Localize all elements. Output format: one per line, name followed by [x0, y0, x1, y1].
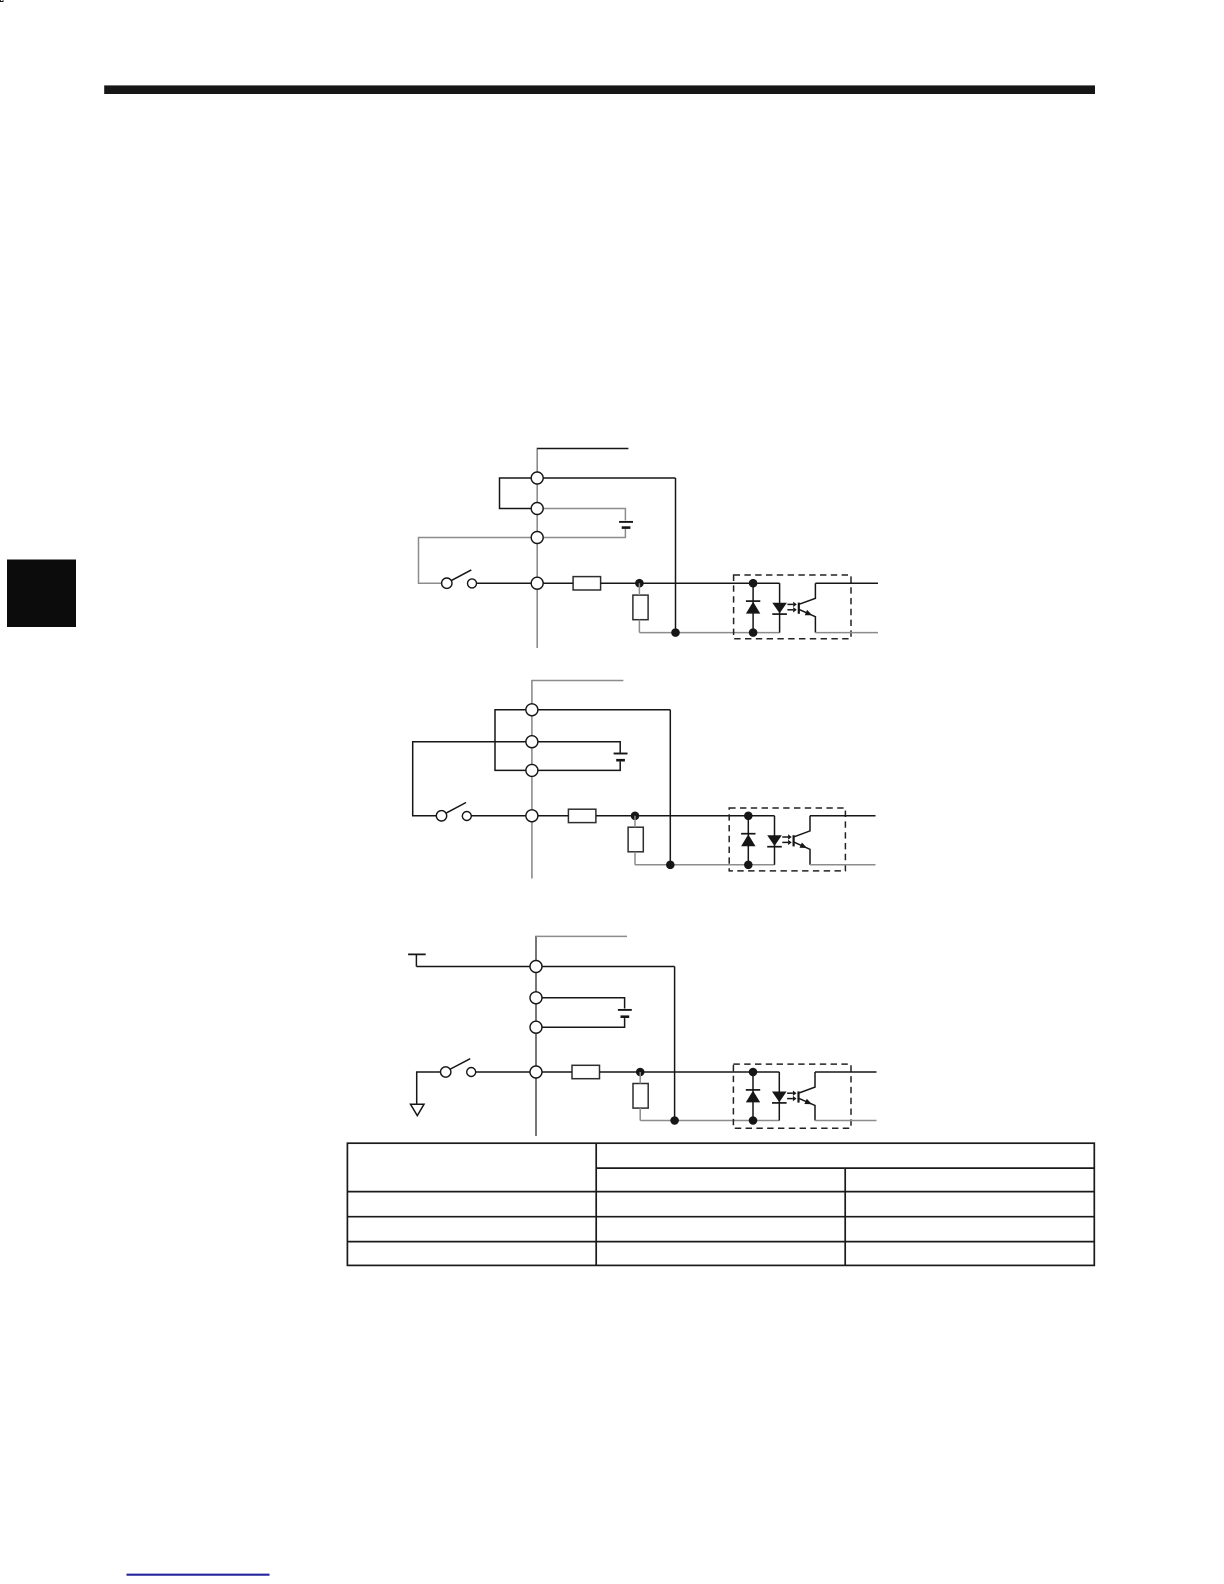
ground symbol — [411, 1104, 425, 1115]
wire: emitter output (bottom) — [810, 864, 876, 866]
wire: pin2 to switch (far left) — [413, 742, 526, 816]
pin 1 (circuit 2) — [526, 704, 538, 716]
wire: switch to pin4 — [472, 815, 526, 817]
junction J4 (diode bottom node) — [744, 861, 753, 870]
wire: pin 4 to R1 — [542, 1071, 572, 1073]
footer rule (blue) — [127, 1574, 270, 1576]
wire: diode D1 branch (vertical) — [747, 816, 749, 865]
wire: J1 down to R2 top — [638, 583, 640, 595]
CN1 pin column (circuit 2) — [531, 680, 533, 879]
wire: pin1 to internal supply, right — [542, 966, 675, 968]
wire: top feed line (circuit 3) — [536, 935, 627, 937]
wire: battery - to pin3 — [542, 1018, 625, 1027]
wire: emitter output (bottom) — [815, 632, 878, 634]
switch SW2 contact circles — [436, 811, 446, 821]
battery B2 (12-24 VDC) — [614, 753, 628, 755]
pin 3 (circuit 2) — [526, 764, 538, 776]
wire: pin 4 to R1 — [538, 815, 569, 817]
pin 4 (circuit 3, input) — [530, 1066, 542, 1078]
phototransistor emitter lead with arrow — [799, 1098, 815, 1120]
resistor R2 (shunt, vertical) — [633, 1084, 648, 1109]
pin 1 (circuit 1) — [531, 472, 543, 484]
table row line 2 — [347, 1216, 1094, 1218]
CN1 pin column (circuit 3) — [535, 936, 537, 1136]
resistor R1 (series, horizontal) — [568, 809, 596, 822]
CN1 pin column (circuit 1) — [536, 448, 538, 648]
wire: battery - to pin3 — [543, 529, 625, 538]
external 24V supply flag — [408, 953, 426, 955]
wire: top feed line (circuit 2) — [532, 680, 624, 682]
junction J2 (LED/diode top node) — [749, 579, 758, 588]
switch SW1 blade — [452, 570, 472, 580]
wire: R2 bottom to bottom return — [634, 852, 636, 865]
wire: R1 to photocoupler LED (main row) — [596, 815, 775, 817]
switch SW1 contact circles — [442, 578, 452, 588]
wire: bottom return line — [635, 864, 775, 866]
phototransistor collector lead — [794, 816, 810, 837]
switch SW3 blade — [451, 1059, 471, 1069]
resistor R2 (shunt, vertical) — [628, 827, 643, 852]
pin 3 (circuit 1) — [531, 532, 543, 544]
LED D2 (photocoupler emitter diode, cathode down) — [767, 835, 782, 846]
pin 4 (circuit 2, input) — [526, 810, 538, 822]
wire: bottom return line — [640, 1120, 779, 1122]
diode D1 (protection, cathode up) — [741, 834, 755, 846]
photocoupler package (dashed outline) — [734, 575, 851, 639]
LED D2 (photocoupler emitter diode, cathode down) — [772, 603, 787, 614]
battery B3 (12-24 VDC) — [618, 1009, 632, 1011]
wire: photocoupler LED branch (vertical) — [778, 1072, 780, 1121]
phototransistor Q1 base bar — [798, 603, 800, 614]
light emission arrows — [787, 603, 793, 605]
wire: vertical drop to bottom return — [675, 478, 677, 633]
wire: pin1 to internal supply, right — [538, 709, 670, 711]
junction J3 (vertical drop meets bottom return) — [671, 628, 680, 637]
wire: pin3 to switch (left loop) — [419, 538, 532, 584]
wire: J1 down to R2 top — [634, 816, 636, 827]
wire: diode D1 branch (vertical) — [752, 1072, 754, 1121]
pin 2 (circuit 1) — [531, 503, 543, 515]
wire: vertical drop to bottom return — [674, 967, 676, 1121]
wire: emitter output (bottom) — [815, 1120, 877, 1122]
wire: diode D1 branch (vertical) — [752, 583, 754, 632]
pin 3 (circuit 3) — [530, 1021, 542, 1033]
switch SW2 blade — [446, 803, 466, 813]
table outer border — [347, 1143, 1094, 1265]
pin 2 (circuit 2) — [526, 736, 538, 748]
pin 1 (circuit 3) — [530, 961, 542, 973]
junction J3 (vertical drop meets bottom return) — [670, 1116, 679, 1125]
resistor R1 (series, horizontal) — [572, 1065, 600, 1078]
photocoupler package (dashed outline) — [729, 808, 845, 871]
wire: pin 4 to R1 — [543, 582, 573, 584]
phototransistor emitter lead with arrow — [794, 842, 810, 865]
wire: pin2 to battery + — [538, 742, 620, 753]
wire: bottom return line — [639, 632, 779, 634]
table row line 3 — [347, 1241, 1094, 1243]
pin 4 (circuit 1, input) — [531, 577, 543, 589]
junction J2 (LED/diode top node) — [744, 812, 753, 821]
light emission arrows — [787, 1092, 793, 1094]
junction J3 (vertical drop meets bottom return) — [666, 861, 675, 870]
wire: R1 to photocoupler LED (main row) — [601, 582, 780, 584]
page corner mark top-left — [0, 0, 3, 2]
diode D1 (protection, cathode up) — [746, 1091, 760, 1103]
phototransistor collector lead — [799, 1072, 815, 1093]
phototransistor Q1 base bar — [792, 835, 794, 846]
junction J4 (diode bottom node) — [749, 1116, 758, 1125]
switch SW3 contact circles — [441, 1067, 451, 1077]
wire: R2 bottom to bottom return — [639, 1108, 641, 1120]
wire: pin2 to battery + — [543, 509, 625, 521]
table vertical divider (left column) — [595, 1143, 597, 1265]
photocoupler package (dashed outline) — [733, 1064, 851, 1128]
table vertical divider (right columns) — [844, 1168, 846, 1265]
diode D1 (protection, cathode up) — [746, 602, 760, 614]
chapter tab black square — [7, 560, 76, 628]
table header split line (right side) — [596, 1167, 1094, 1169]
wire: R1 to photocoupler LED (main row) — [600, 1071, 780, 1073]
wire: pin2 to battery + — [542, 998, 625, 1009]
wire: J1 down to R2 top — [639, 1072, 641, 1084]
junction J1 (node after R1) — [631, 812, 640, 821]
junction J1 (node after R1) — [636, 1068, 645, 1077]
junction J4 (diode bottom node) — [749, 628, 758, 637]
wire: collector output (top) — [815, 582, 878, 584]
wire: battery - to pin3 — [538, 762, 620, 771]
phototransistor collector lead — [799, 583, 815, 604]
table row line 1 — [347, 1191, 1094, 1193]
wire: jumper loop pin1-pin3 (left) — [495, 710, 526, 771]
wire: pin1 to internal supply, right — [543, 477, 675, 479]
wire: photocoupler LED branch (vertical) — [779, 583, 781, 632]
wire: supply flag to pin1 — [416, 966, 530, 968]
wire: switch to ground (left) — [417, 1072, 441, 1104]
junction J1 (node after R1) — [635, 579, 644, 588]
battery B1 (12-24 VDC) — [619, 521, 633, 523]
phototransistor Q1 base bar — [797, 1091, 799, 1102]
wire: jumper loop pin1-pin2 (left) — [500, 478, 532, 509]
wire: top feed line (circuit 1) — [537, 448, 628, 450]
LED D2 (photocoupler emitter diode, cathode down) — [772, 1092, 787, 1103]
junction J2 (LED/diode top node) — [749, 1068, 758, 1077]
wire: R2 bottom to bottom return — [638, 620, 640, 633]
wire: vertical drop to bottom return — [669, 710, 671, 865]
wire: switch to pin4 — [477, 582, 532, 584]
wire: photocoupler LED branch (vertical) — [774, 816, 776, 865]
wire: collector output (top) — [815, 1071, 877, 1073]
top horizontal rule — [104, 85, 1095, 94]
resistor R1 (series, horizontal) — [573, 577, 601, 590]
wire: switch to pin4 — [476, 1071, 530, 1073]
resistor R2 (shunt, vertical) — [633, 595, 648, 620]
phototransistor emitter lead with arrow — [799, 610, 815, 633]
pin 2 (circuit 3) — [530, 992, 542, 1004]
wire: collector output (top) — [810, 815, 876, 817]
light emission arrows — [782, 836, 788, 838]
